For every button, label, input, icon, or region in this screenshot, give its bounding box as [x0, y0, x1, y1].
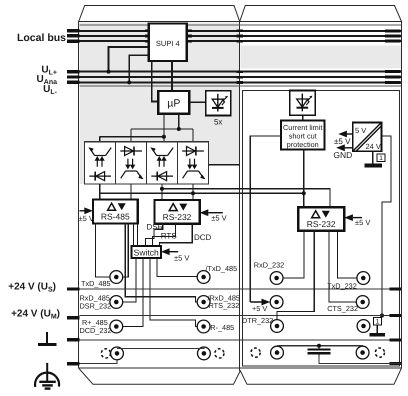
- wire current limit bottom to RS-232 top: [303, 149, 305, 207]
- IC uP microprocessor: [158, 91, 189, 114]
- svg-text:±5 V: ±5 V: [211, 214, 226, 223]
- switch box: [132, 246, 162, 258]
- right edge stub rail2: [390, 314, 402, 317]
- wire switch to R+_485 terminal: [123, 258, 143, 327]
- wire DC/DC bottom to ground bar: [372, 151, 374, 163]
- svg-text:RxD_232: RxD_232: [254, 261, 284, 270]
- local bus line 2: [80, 35, 402, 37]
- left edge stub FE: [67, 362, 80, 365]
- wire current limit left pin down to +5V arrow: [250, 136, 281, 302]
- svg-text:R-_485: R-_485: [210, 323, 234, 332]
- svg-text:TxD_485: TxD_485: [81, 279, 111, 288]
- LED indicator box right module: [290, 91, 316, 116]
- module bottom skirt with feet and notch: [79, 368, 402, 384]
- grey bus band right module: [241, 46, 402, 69]
- wire RS-232 to TxD_232: [338, 231, 357, 278]
- terminal +5V: [270, 296, 283, 309]
- arrow ±5V into switch: [161, 248, 178, 255]
- ground symbol left margin: [38, 332, 57, 345]
- U_Ana rail: [80, 76, 402, 78]
- svg-text:DCD: DCD: [194, 233, 212, 242]
- terminal FE left module right: [198, 347, 211, 360]
- svg-text:DTR_232: DTR_232: [242, 316, 273, 325]
- wire OC2 bottom pin: [130, 184, 132, 200]
- terminal RxD_485 DSR_232: [110, 296, 123, 309]
- wire FE terminals link right module: [277, 346, 363, 347]
- terminal note box 1 right module: [374, 317, 382, 325]
- junction dot on UL-: [127, 80, 131, 84]
- supply rail to RS-232 boxes: [162, 189, 330, 208]
- svg-text:±5 V: ±5 V: [79, 214, 94, 223]
- left edge connector stubs local bus: [67, 29, 80, 43]
- svg-text:5 V: 5 V: [355, 126, 366, 135]
- junction dots on supply rail 2: [191, 191, 195, 195]
- svg-text:DSR_232: DSR_232: [80, 301, 112, 310]
- wire SUPI4 to uP top pin: [171, 61, 173, 91]
- rail 24V UM: [80, 315, 402, 317]
- svg-text:DSR: DSR: [147, 223, 164, 232]
- terminal FE right module left: [271, 346, 284, 359]
- svg-text:protection: protection: [287, 140, 319, 149]
- optocoupler feed line upper: [131, 114, 193, 142]
- terminal DTR_232: [271, 320, 284, 333]
- wire LED box to current limit box: [302, 115, 304, 120]
- junction dot feed upper: [177, 127, 181, 131]
- junction dots on supply rail: [160, 187, 164, 191]
- svg-text:Switch: Switch: [134, 248, 159, 258]
- junction dot DC/DC return on rail: [380, 314, 384, 318]
- svg-text:RS-232: RS-232: [307, 219, 336, 229]
- wire DC/DC right side down right column: [381, 136, 391, 315]
- svg-text:/TxD_485: /TxD_485: [206, 264, 238, 273]
- junction dot on UL+: [107, 70, 111, 74]
- svg-text:±5 V: ±5 V: [174, 254, 189, 263]
- terminal FE left module left: [111, 347, 124, 360]
- wire SUPI4 to uP left pin: [152, 61, 159, 102]
- svg-text:GND: GND: [333, 150, 352, 160]
- optocoupler feed line lower: [100, 114, 164, 142]
- wire RS-232 to DTR_232: [277, 231, 314, 320]
- svg-text:±5 V: ±5 V: [334, 137, 351, 146]
- optocoupler OC1: [89, 148, 111, 181]
- wire uP to LED box: [189, 101, 206, 103]
- svg-text:DCD_232: DCD_232: [80, 326, 112, 335]
- wire switch to RxD_485 terminal: [123, 258, 136, 302]
- wire switch to R-_485 terminal: [150, 258, 197, 327]
- svg-text:RTS_232: RTS_232: [209, 301, 240, 310]
- wire RS-485 pins into switch: [134, 223, 138, 246]
- wire RS-485 to /RxD_485 terminal: [125, 223, 197, 302]
- wire RS-232 to CTS_232: [329, 231, 356, 302]
- svg-text:RS-232: RS-232: [163, 212, 192, 222]
- wire RS-232 to RxD_232: [283, 231, 304, 278]
- module housing outline top skirt: [79, 6, 402, 23]
- U_L+ rail: [80, 71, 402, 73]
- wire RTS staircase: [153, 224, 176, 246]
- svg-text:µP: µP: [167, 98, 180, 110]
- FE wire right module: [319, 357, 401, 364]
- dashed terminal right module left: [251, 348, 260, 357]
- dashed terminal right module right: [375, 348, 384, 357]
- FE wire left module: [80, 360, 118, 364]
- thin rail below U group: [80, 85, 402, 87]
- optocoupler block frame: [85, 142, 209, 184]
- wire DSR staircase: [146, 224, 163, 246]
- wire note box to ground bar: [376, 325, 378, 333]
- divider junction stubs bus lines: [236, 30, 243, 84]
- right edge connector stubs local bus: [385, 29, 401, 42]
- ground bar right module: [370, 333, 386, 337]
- driver RS-232 box left module: [154, 200, 199, 224]
- right edge stub rail3: [390, 338, 402, 341]
- SUPI4 pin stubs on bus lines: [145, 29, 192, 42]
- U_L- rail: [80, 81, 402, 83]
- right edge stub rail1: [390, 288, 402, 291]
- right edge stub FE: [390, 362, 402, 365]
- wire switch to /TxD_485 terminal: [157, 258, 197, 277]
- optocoupler cell dividers: [116, 142, 178, 184]
- svg-text:Local bus: Local bus: [17, 32, 66, 44]
- left edge stub +24V UM: [67, 316, 80, 319]
- svg-text:1: 1: [376, 319, 380, 326]
- module front face frame: [79, 22, 402, 369]
- module divider between left and right segment: [239, 22, 241, 371]
- terminal GND right module: [357, 320, 370, 333]
- wire OC1 bottom pin: [99, 184, 101, 200]
- svg-text:+5 V: +5 V: [252, 304, 267, 313]
- arrow ±5V into RS-232 right: [344, 214, 362, 221]
- local bus line 1: [80, 30, 402, 32]
- driver RS-232 box right module: [298, 207, 344, 231]
- terminal RxD_232: [270, 272, 283, 285]
- terminal CTS_232: [356, 296, 369, 309]
- driver RS-485 box: [93, 200, 138, 224]
- left edge connector stubs U rails: [67, 70, 80, 84]
- arrow +5V into terminal: [250, 299, 270, 306]
- optocoupler OC2: [120, 147, 142, 179]
- dashed terminal left module left: [101, 349, 110, 358]
- DC/DC converter box: [353, 123, 382, 152]
- arrow +-5V into RS-485: [80, 207, 93, 214]
- arrow 5V out of DC/DC: [338, 131, 353, 138]
- wire RS-485 to TxD_485 terminal: [95, 223, 109, 277]
- arrow ±5V into RS-232 left: [200, 209, 223, 216]
- dashed terminal left module right: [215, 349, 224, 358]
- DC/DC ground bar: [364, 164, 381, 168]
- right module inner frame: [243, 91, 400, 367]
- junction dot feed lower: [162, 135, 166, 139]
- svg-text:1: 1: [379, 155, 383, 162]
- wire OC4 bottom pin: [192, 184, 194, 200]
- left edge stub +24V US: [67, 287, 80, 290]
- svg-text:RS-485: RS-485: [101, 212, 130, 222]
- IC SUPI 4: [149, 24, 187, 62]
- LED indicator box 5x: [206, 91, 231, 116]
- wire SUPI4 pin to UL- rail: [129, 55, 149, 82]
- terminal note box 1 at DC/DC: [377, 154, 385, 162]
- grey electronics zone left module: [80, 23, 240, 165]
- junction dot capacitor: [317, 344, 321, 348]
- wire opto block right to divider: [209, 164, 240, 166]
- svg-text:5x: 5x: [214, 118, 222, 127]
- supply rail 2: [100, 192, 304, 194]
- terminal TxD_232: [357, 272, 370, 285]
- svg-text:TxD_232: TxD_232: [327, 282, 357, 291]
- local bus line 3: [80, 40, 402, 42]
- right edge connector stubs U rails: [385, 70, 401, 84]
- capacitor to FE: [308, 346, 331, 357]
- terminal /RxD_485 RTS_232: [197, 296, 210, 309]
- local bus line thin: [80, 24, 402, 26]
- rail GND: [80, 339, 402, 341]
- terminal /TxD_485: [197, 271, 210, 284]
- svg-text:RTS: RTS: [161, 231, 177, 240]
- terminal TxD_485: [110, 271, 123, 284]
- wire RS-485 to TxD_485 terminal right side: [123, 223, 129, 277]
- terminal R+_485 DCD_232: [110, 320, 123, 333]
- terminal R-_485: [197, 320, 210, 333]
- terminal FE right module right: [356, 346, 369, 359]
- optocoupler OC4: [182, 147, 204, 179]
- current limit short cut protection box: [281, 121, 324, 150]
- wire SUPI4 pin to UL+ rail: [109, 47, 149, 72]
- svg-text:CTS_232: CTS_232: [327, 304, 358, 313]
- svg-text:±5 V: ±5 V: [355, 218, 370, 227]
- svg-text:SUPI 4: SUPI 4: [156, 39, 180, 48]
- svg-text:24 V: 24 V: [366, 142, 381, 151]
- earth ground symbol lower left: [35, 363, 59, 389]
- wire OC3 bottom pin: [161, 184, 163, 200]
- wire FE terminals link left module: [117, 347, 204, 348]
- arrow GND out of DC/DC: [336, 144, 353, 151]
- wire DCD staircase: [160, 224, 193, 246]
- optocoupler OC3: [151, 148, 173, 181]
- rail 24V US: [80, 288, 402, 290]
- left edge stub GND rail: [67, 338, 80, 341]
